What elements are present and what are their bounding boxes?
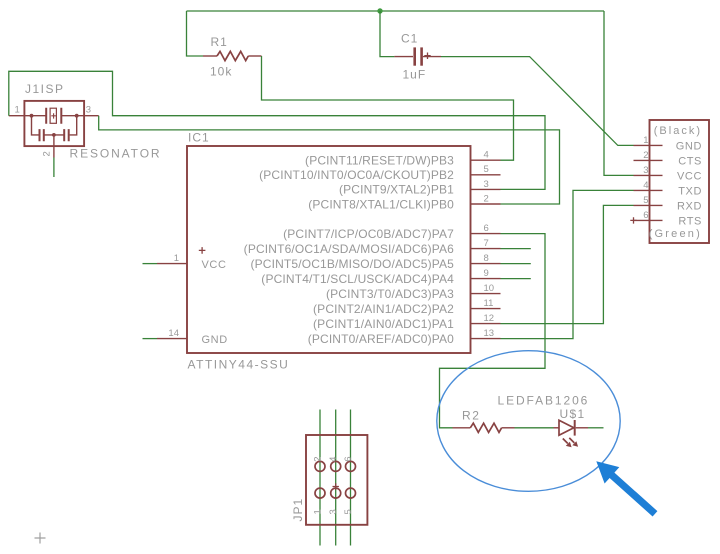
svg-text:5: 5: [643, 195, 648, 206]
pin stub resonator pin3: [84, 115, 99, 117]
annotation ellipse: [437, 351, 620, 492]
pin 2 CTS: [634, 150, 703, 168]
svg-text:5: 5: [343, 509, 354, 514]
svg-text:2: 2: [313, 457, 324, 462]
pin 7 PA6: [244, 238, 501, 256]
svg-text:8: 8: [484, 253, 489, 264]
svg-text:3: 3: [328, 509, 339, 514]
svg-text:1: 1: [15, 105, 20, 116]
wire PA5 stub: [501, 263, 531, 265]
svg-text:IC1: IC1: [188, 131, 210, 145]
svg-text:RESONATOR: RESONATOR: [70, 147, 162, 161]
svg-text:5: 5: [484, 164, 489, 175]
pin 13 PA0: [308, 328, 501, 346]
svg-text:(PCINT4/T1/SCL/USCK/ADC4)PA4: (PCINT4/T1/SCL/USCK/ADC4)PA4: [261, 272, 454, 286]
svg-text:C1: C1: [401, 32, 418, 46]
pin 6 PA7: [283, 223, 500, 241]
pin 9 PA4: [261, 268, 500, 286]
wire top rail to C1: [380, 11, 394, 57]
svg-text:J1ISP: J1ISP: [25, 82, 65, 96]
pin 11 PA2: [313, 298, 500, 316]
resistor R1: [203, 51, 262, 60]
pin 14 GND: [157, 328, 187, 339]
svg-text:ATTINY44-SSU: ATTINY44-SSU: [188, 358, 290, 372]
wire LED tail: [588, 427, 604, 429]
svg-text:GND: GND: [676, 141, 702, 153]
svg-text:GND: GND: [202, 334, 228, 346]
svg-text:10: 10: [484, 283, 495, 294]
svg-text:1: 1: [174, 253, 179, 264]
pin 4 PB3: [305, 150, 500, 168]
resistor R2: [453, 423, 515, 432]
svg-text:10k: 10k: [210, 65, 232, 79]
wire pin1 tail: [143, 263, 158, 265]
svg-text:1uF: 1uF: [403, 68, 427, 82]
svg-text:2: 2: [484, 193, 489, 204]
wire pin14 tail: [143, 338, 158, 340]
wire JP1 column 1: [319, 410, 321, 546]
annotation arrow: [596, 461, 657, 516]
svg-text:4: 4: [328, 457, 339, 462]
svg-text:(Black): (Black): [654, 125, 702, 137]
svg-text:VCC: VCC: [677, 171, 702, 183]
svg-text:3: 3: [484, 179, 489, 190]
wire R2 to LED: [515, 427, 554, 429]
svg-text:1: 1: [313, 509, 324, 514]
svg-text:(PCINT5/OC1B/MISO/DO/ADC5)PA5: (PCINT5/OC1B/MISO/DO/ADC5)PA5: [251, 257, 455, 271]
pin 8 PA5: [251, 253, 501, 271]
connector J2 box: [650, 120, 710, 243]
svg-text:R2: R2: [462, 409, 481, 423]
wire resonator pin3 to PB0/XTAL1: [99, 116, 560, 204]
svg-text:(PCINT6/OC1A/SDA/MOSI/ADC6)PA6: (PCINT6/OC1A/SDA/MOSI/ADC6)PA6: [244, 242, 454, 256]
pin 10 PA3: [326, 283, 501, 301]
wire R1 to PB3 net: [262, 56, 514, 160]
svg-text:6: 6: [343, 457, 354, 462]
svg-text:2: 2: [42, 151, 53, 156]
svg-text:14: 14: [168, 328, 179, 339]
svg-text:13: 13: [484, 328, 495, 339]
svg-text:(PCINT8/XTAL1/CLKI)PB0: (PCINT8/XTAL1/CLKI)PB0: [308, 197, 454, 211]
origin cross mark: [35, 533, 46, 544]
svg-text:(PCINT0/AREF/ADC0)PA0: (PCINT0/AREF/ADC0)PA0: [308, 332, 454, 346]
wire TXD to PA0: [501, 190, 634, 338]
svg-text:6: 6: [643, 210, 648, 221]
svg-text:9: 9: [484, 268, 489, 279]
svg-text:4: 4: [484, 150, 489, 161]
svg-text:4: 4: [643, 180, 648, 191]
svg-text:12: 12: [484, 313, 495, 324]
svg-text:2: 2: [643, 150, 648, 161]
svg-text:RTS: RTS: [678, 216, 702, 228]
node VCC junction dot: [377, 8, 382, 13]
svg-text:6: 6: [484, 223, 489, 234]
wire top rail to R1: [187, 11, 204, 56]
pin 1 GND: [634, 135, 703, 153]
op-amp IC1 box: [187, 146, 471, 353]
svg-text:1: 1: [643, 135, 648, 146]
connector JP1: [306, 435, 367, 525]
svg-text:TXD: TXD: [678, 186, 702, 198]
svg-text:(PCINT11/RESET/DW)PB3: (PCINT11/RESET/DW)PB3: [305, 154, 454, 168]
pin 4 TXD: [634, 180, 703, 198]
wire VCC top rail: [187, 10, 605, 12]
pin 1 VCC: [157, 253, 187, 264]
wire resonator pin2 stub: [53, 158, 55, 178]
svg-text:U$1: U$1: [560, 407, 586, 421]
svg-text:CTS: CTS: [678, 156, 702, 168]
svg-text:11: 11: [484, 298, 494, 309]
svg-text:7: 7: [484, 238, 489, 249]
svg-text:(PCINT1/AIN0/ADC1)PA1: (PCINT1/AIN0/ADC1)PA1: [313, 317, 454, 331]
pin stub resonator pin1: [9, 115, 25, 117]
LED U$1: [554, 420, 589, 447]
wire VCC rail to connector VCC: [604, 11, 634, 175]
wire PA6 stub: [501, 248, 531, 250]
capacitor C1: [394, 47, 441, 65]
svg-text:R1: R1: [211, 35, 228, 49]
wire JP1 column 2: [335, 410, 337, 546]
svg-text:(PCINT2/AIN1/ADC2)PA2: (PCINT2/AIN1/ADC2)PA2: [313, 302, 454, 316]
pin 6 RTS: [630, 210, 702, 228]
wire resonator pin1 to PB1/XTAL2: [9, 71, 545, 189]
svg-text:3: 3: [643, 165, 648, 176]
svg-text:(PCINT3/T0/ADC3)PA3: (PCINT3/T0/ADC3)PA3: [326, 287, 454, 301]
wire PA7 to LED net: [440, 234, 546, 428]
svg-text:JP1: JP1: [291, 498, 305, 522]
svg-text:LEDFAB1206: LEDFAB1206: [498, 393, 590, 407]
pin 3 VCC: [634, 165, 703, 183]
svg-text:VCC: VCC: [202, 259, 227, 271]
pin 3 PB1: [339, 179, 501, 197]
svg-text:(PCINT10/INT0/OC0A/CKOUT)PB2: (PCINT10/INT0/OC0A/CKOUT)PB2: [259, 168, 454, 182]
svg-text:(PCINT9/XTAL2)PB1: (PCINT9/XTAL2)PB1: [339, 183, 454, 197]
pin 12 PA1: [313, 313, 500, 331]
pin 5 PB2: [259, 164, 500, 182]
wire PA4 stub: [501, 278, 531, 280]
svg-text:(Green): (Green): [649, 228, 702, 240]
svg-text:RXD: RXD: [677, 201, 702, 213]
wire C1 to GND pin of J2: [441, 57, 634, 146]
plus mark VCC: [199, 247, 206, 254]
wire RXD to PA1: [501, 205, 634, 323]
resonator J1: [24, 101, 84, 158]
svg-text:3: 3: [86, 105, 91, 116]
svg-text:(PCINT7/ICP/OC0B/ADC7)PA7: (PCINT7/ICP/OC0B/ADC7)PA7: [283, 227, 454, 241]
wire JP1 column 3: [350, 410, 352, 546]
pin 5 RXD: [634, 195, 703, 213]
pin 2 PB0: [308, 193, 500, 211]
